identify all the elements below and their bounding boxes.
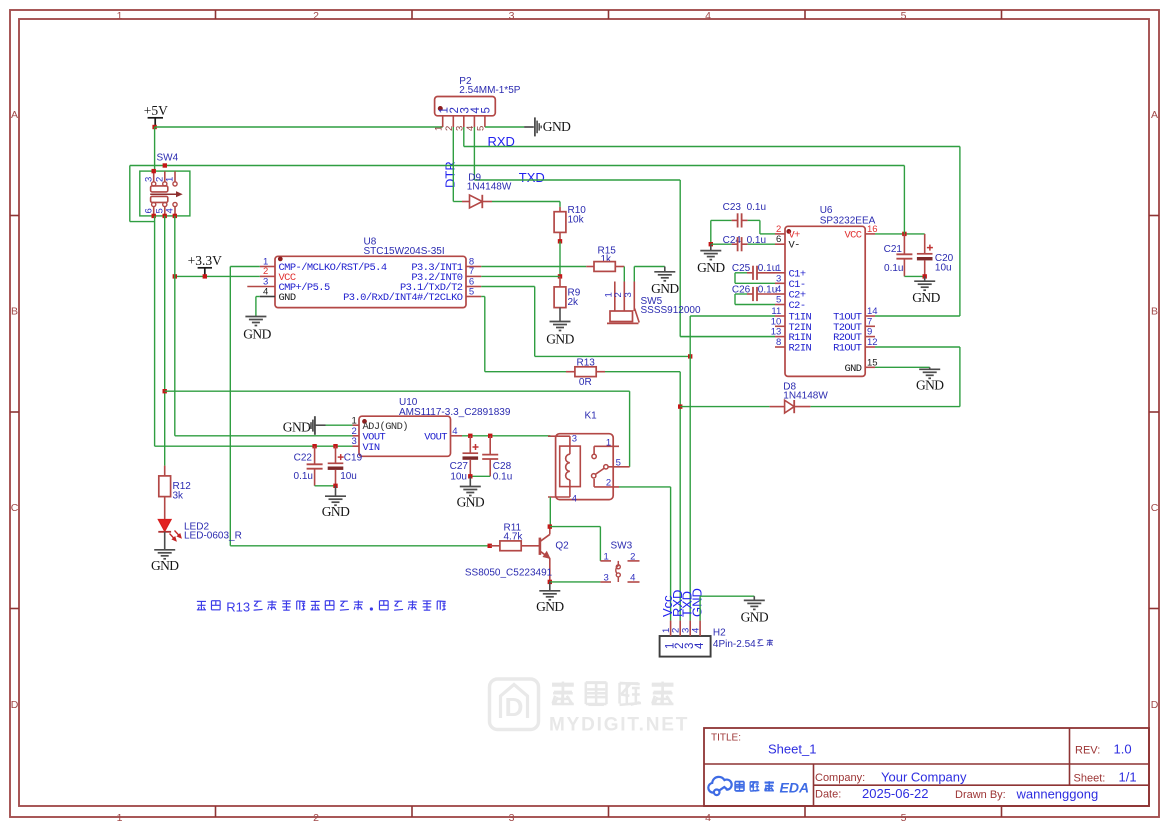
svg-text:3: 3	[623, 292, 634, 297]
title block logo text 嘉立创EDA	[734, 782, 736, 791]
svg-text:GND: GND	[322, 504, 350, 519]
ground below C27	[469, 476, 471, 486]
svg-text:GND: GND	[536, 599, 564, 614]
capacitor C27 (polarized)	[469, 436, 471, 453]
wire Q2 emitter to SW3 pin3	[550, 581, 601, 583]
U6 pin 7 T2OUT	[865, 325, 875, 327]
svg-text:5: 5	[901, 812, 907, 824]
U6 pin 14 T1OUT	[865, 315, 875, 317]
wire SW4 inner loop rectangle	[140, 171, 190, 216]
svg-text:3: 3	[604, 573, 609, 584]
svg-text:C2-: C2-	[789, 300, 806, 312]
svg-text:D: D	[11, 699, 19, 711]
wire SW4 pin5 down to R12/K1 net	[164, 216, 166, 466]
node C27 bottom junction	[468, 474, 472, 478]
svg-text:STC15W204S-35I: STC15W204S-35I	[364, 246, 445, 257]
wire R1IN from TXD net	[680, 336, 775, 338]
svg-text:1: 1	[606, 438, 611, 449]
svg-text:8: 8	[776, 337, 781, 348]
svg-text:C19: C19	[344, 453, 363, 464]
svg-text:SS8050_C5223491: SS8050_C5223491	[465, 568, 553, 579]
svg-text:GND: GND	[916, 378, 944, 393]
wire K1 pin2 to H2 pin1 Vcc	[619, 486, 671, 488]
switch SW4 body	[153, 171, 155, 181]
U10 pin 2 VOUT left	[353, 435, 360, 437]
header H2 4Pin	[660, 636, 711, 657]
svg-text:GND: GND	[912, 290, 940, 305]
U6 pin 11 T1IN	[775, 315, 785, 317]
U10 pin 1 ADJ(GND)	[353, 424, 360, 426]
U6 pin 3 C1-	[775, 282, 785, 284]
K1 pin 1 NC contact	[594, 445, 619, 447]
wire H2 pin4 to GND	[699, 596, 701, 620]
svg-text:4: 4	[452, 426, 457, 437]
svg-text:C23: C23	[723, 202, 742, 213]
annotation note about R13 (chinese)	[197, 600, 206, 602]
node R10 bottom junction	[558, 239, 562, 243]
svg-text:1: 1	[117, 812, 123, 824]
svg-text:GND: GND	[283, 419, 311, 434]
svg-text:4: 4	[694, 642, 706, 649]
svg-text:R2IN: R2IN	[789, 343, 812, 355]
ground at H2 pin4	[753, 596, 755, 600]
U6 pin 4 C2+	[775, 293, 785, 295]
K1 pin 2 NO contact	[593, 479, 595, 487]
ground at U6 pin15	[875, 366, 930, 368]
svg-text:3k: 3k	[173, 490, 185, 501]
node T1IN net junction	[688, 354, 692, 358]
title block table	[704, 728, 1149, 806]
svg-text:B: B	[1151, 306, 1158, 318]
svg-text:2025-06-22: 2025-06-22	[862, 786, 929, 801]
node SW4 pin connections	[163, 163, 167, 167]
svg-text:wannenggong: wannenggong	[1016, 787, 1099, 802]
U6 pin 5 C2-	[775, 304, 785, 306]
ground GND at P2 pin5 (right-pointing)	[485, 126, 524, 128]
svg-text:GND: GND	[741, 610, 769, 625]
watermark logo house-D	[490, 679, 539, 730]
svg-text:3: 3	[143, 177, 154, 182]
wire C25 to U6 C1-	[735, 272, 747, 274]
switch SW3 body	[600, 560, 611, 562]
wire U6 VCC to decoupling	[875, 233, 925, 235]
svg-text:3: 3	[776, 273, 781, 284]
svg-text:GND: GND	[844, 363, 861, 375]
wire C21 C20 commons	[904, 275, 924, 277]
svg-text:1: 1	[434, 126, 445, 131]
wire R10 to R9 divider	[559, 241, 561, 276]
K1 pin 3 coil+	[548, 435, 570, 437]
svg-text:4: 4	[690, 628, 701, 633]
K1 pin 4 coil-	[548, 496, 570, 498]
svg-text:TITLE:: TITLE:	[711, 733, 741, 744]
svg-text:U6: U6	[820, 205, 833, 216]
svg-text:AMS1117-3.3_C2891839: AMS1117-3.3_C2891839	[399, 407, 511, 418]
K1 coil	[569, 436, 571, 454]
regulator U10 AMS1117-3.3 box	[359, 416, 451, 456]
diode D9 1N4148W	[462, 201, 470, 203]
svg-text:K1: K1	[585, 411, 598, 422]
svg-text:2: 2	[630, 552, 635, 563]
svg-text:D: D	[1151, 699, 1159, 711]
svg-text:2: 2	[606, 478, 611, 489]
svg-text:0.1u: 0.1u	[884, 263, 903, 274]
U6 pin 15 GND	[865, 366, 875, 368]
svg-text:2k: 2k	[568, 297, 580, 308]
wire +5V down to SW4 pin3	[154, 127, 156, 171]
svg-text:C: C	[11, 502, 19, 514]
svg-text:GND: GND	[279, 292, 296, 304]
node C19 bottom junction	[333, 484, 337, 488]
wire U8 pin8 P3.3/INT1 to R15	[481, 266, 586, 268]
H2 pin stubs	[670, 621, 672, 636]
U8 pin 6 P3.1/TxD/T2	[466, 286, 481, 288]
node C22 C19 taps	[312, 444, 316, 448]
ground below R9	[559, 308, 561, 322]
wire U8 pin1 RST to Q2 drive	[230, 266, 259, 268]
ground below C23/C24	[710, 244, 712, 250]
U6 pin 2 V+	[775, 233, 785, 235]
ground below LED2	[164, 532, 166, 550]
svg-text:1.0: 1.0	[1114, 742, 1132, 757]
svg-text:Sheet:: Sheet:	[1074, 773, 1106, 785]
svg-text:A: A	[11, 109, 18, 121]
svg-text:1: 1	[604, 552, 609, 563]
wire R13 to RXD header net	[605, 371, 680, 373]
svg-text:Your Company: Your Company	[881, 770, 967, 785]
ground at U8 pin4	[256, 296, 260, 298]
svg-text:TXD: TXD	[519, 170, 545, 185]
wire SW4 pin4 down to +3.3V / U10 VOUT	[174, 216, 176, 436]
wire VCC net from SW4 down	[903, 166, 905, 234]
U6 pin 6 V-	[775, 243, 785, 245]
svg-text:C21: C21	[884, 244, 903, 255]
K1 pin 5 common	[604, 465, 608, 469]
svg-text:Company:: Company:	[815, 772, 865, 784]
wire VIN rail to U10 pin3	[155, 445, 353, 447]
svg-text:H2: H2	[713, 628, 726, 639]
node Q2 emitter junction	[548, 580, 552, 584]
ground below C20	[924, 276, 926, 281]
svg-text:4: 4	[263, 286, 268, 297]
svg-text:1N4148W: 1N4148W	[467, 182, 512, 193]
svg-text:1: 1	[165, 177, 176, 182]
relay K1 body	[556, 434, 614, 500]
wire C27 C28 commons	[470, 475, 490, 477]
IC U8 STC15W204S-35I box	[275, 256, 466, 307]
svg-text:GND: GND	[651, 281, 679, 296]
svg-text:SW3: SW3	[611, 541, 633, 552]
node +3.3V rail junctions	[173, 274, 177, 278]
svg-text:SSSS912000: SSSS912000	[641, 305, 701, 316]
LED LED2 (red)	[164, 497, 166, 520]
wire T1IN from header net	[690, 315, 775, 317]
node C23/C24 ground junction	[709, 242, 713, 246]
capacitor C28	[489, 436, 491, 455]
wire D9 cathode to R10	[492, 201, 560, 203]
ground below Q2 emitter	[549, 582, 551, 591]
U10 pin 4 VOUT right	[451, 435, 463, 437]
capacitor C20 (polarized)	[924, 234, 926, 254]
svg-text:Sheet_1: Sheet_1	[768, 742, 816, 757]
svg-text:0.1u: 0.1u	[493, 471, 512, 482]
svg-text:10u: 10u	[340, 471, 357, 482]
U6 pin 12 R1OUT	[865, 346, 875, 348]
svg-text:MYDIGIT.NET: MYDIGIT.NET	[549, 715, 689, 736]
title block JLC EDA logo cloud	[708, 777, 731, 795]
node Q2 collector junction	[548, 524, 552, 528]
svg-text:0R: 0R	[579, 377, 592, 388]
svg-text:5: 5	[616, 457, 621, 468]
svg-text:10u: 10u	[935, 262, 952, 273]
wire RXD from P2 pin3	[463, 127, 465, 147]
svg-text:C: C	[1151, 502, 1159, 514]
svg-text:V-: V-	[789, 240, 800, 252]
svg-text:4Pin-2.54: 4Pin-2.54	[713, 639, 756, 650]
svg-text:P3.0/RxD/INT4#/T2CLKO: P3.0/RxD/INT4#/T2CLKO	[343, 292, 463, 304]
wire U8 pin7 P3.2/INT0 to divider	[481, 275, 560, 277]
watermark text 数码之家	[552, 683, 574, 686]
P2 pin1 marker dot	[438, 107, 442, 111]
svg-text:1/1: 1/1	[1119, 770, 1137, 785]
wire K1 pin3 from VOUT	[549, 435, 551, 437]
svg-text:5: 5	[469, 286, 474, 297]
node C27 C28 taps	[468, 434, 472, 438]
svg-text:R1OUT: R1OUT	[833, 343, 862, 355]
svg-text:REV:: REV:	[1075, 745, 1100, 757]
wire +3.3V rail to U8 pin2	[175, 275, 260, 277]
U8 pin 7 P3.2/INT0	[466, 275, 481, 277]
frame row ticks left	[10, 215, 19, 217]
svg-text:4: 4	[705, 10, 711, 22]
svg-text:GND: GND	[543, 119, 571, 134]
resistor R10	[559, 207, 561, 212]
node divider junction to U8 pin7	[558, 274, 562, 278]
svg-text:2: 2	[352, 426, 357, 437]
U10 pin 3 VIN	[353, 445, 360, 447]
U6 pin 16 VCC	[865, 233, 875, 235]
svg-text:GND: GND	[457, 495, 485, 510]
svg-text:2.54MM-1*5P: 2.54MM-1*5P	[459, 85, 520, 96]
frame column ticks bottom	[215, 806, 217, 817]
svg-text:C22: C22	[294, 453, 313, 464]
wire MCU TxD to T1IN net	[481, 286, 535, 288]
wire C23 to U6 V+	[748, 219, 760, 221]
ground below C19	[335, 486, 337, 496]
svg-text:4: 4	[165, 208, 176, 213]
frame row ticks right	[1149, 215, 1159, 217]
svg-text:+3.3V: +3.3V	[188, 253, 222, 268]
svg-text:A: A	[1151, 109, 1158, 121]
svg-text:Drawn By:: Drawn By:	[955, 789, 1006, 801]
ground at SW5 pin3	[664, 267, 666, 272]
svg-text:2: 2	[313, 812, 319, 824]
svg-text:VIN: VIN	[363, 442, 380, 454]
svg-text:9: 9	[867, 327, 872, 338]
wire C22 C19 commons	[315, 485, 336, 487]
svg-text:5: 5	[776, 295, 781, 306]
svg-text:1k: 1k	[601, 254, 613, 265]
wire R1OUT to D8	[875, 346, 960, 348]
svg-text:5: 5	[901, 10, 907, 22]
diode D8 1N4148W	[680, 406, 769, 408]
svg-text:Q2: Q2	[555, 541, 569, 552]
wire TXD from P2 pin4	[473, 127, 475, 180]
U6 pin 10 T2IN	[775, 325, 785, 327]
U6 pin 8 R2IN	[775, 346, 785, 348]
svg-text:4: 4	[630, 573, 635, 584]
svg-text:LED-0603_R: LED-0603_R	[184, 531, 242, 542]
wire SW4 left loop	[129, 166, 131, 222]
U6 pin 1 C1+	[775, 272, 785, 274]
svg-text:3: 3	[572, 433, 577, 444]
svg-text:4: 4	[705, 812, 711, 824]
node VCC junction at C21	[902, 232, 906, 236]
node R11 input junction	[488, 544, 492, 548]
svg-text:6: 6	[143, 208, 154, 213]
wire +5V to P2 pin1	[155, 126, 443, 128]
capacitor C19 (polarized)	[335, 446, 337, 463]
svg-text:D: D	[505, 692, 524, 722]
resistor R9	[559, 276, 561, 287]
svg-text:3: 3	[352, 436, 357, 447]
wire Q2 collector to SW3 pin1	[550, 526, 601, 528]
svg-text:GND: GND	[697, 260, 725, 275]
P2 pin stubs	[442, 116, 444, 127]
svg-text:GND: GND	[546, 332, 574, 347]
frame column ticks top	[215, 10, 217, 19]
wire C24 to U6 V-	[748, 243, 775, 245]
svg-text:3: 3	[509, 812, 515, 824]
U6 pin 13 R1IN	[775, 336, 785, 338]
wire DTR from P2 pin2 down	[452, 127, 454, 202]
node +5V junction	[152, 125, 156, 129]
wire C26 to U6 C2-	[735, 293, 747, 295]
svg-text:B: B	[11, 306, 18, 318]
node D8 anode junction	[678, 404, 682, 408]
svg-text:4: 4	[572, 494, 577, 505]
svg-text:GND: GND	[243, 327, 271, 342]
U8 pin 4 GND	[260, 296, 275, 298]
U8 pin 5 P3.0/RxD/INT4#/T2CLKO	[466, 296, 481, 298]
connector P2	[435, 97, 496, 116]
svg-text:R13: R13	[226, 600, 250, 615]
U8 pin 8 P3.3/INT1	[466, 266, 481, 268]
svg-text:GND: GND	[690, 588, 705, 617]
wire SW5 pin3 to GND	[633, 267, 635, 282]
capacitor C22	[314, 446, 316, 464]
node C20 bottom junction	[923, 274, 927, 278]
svg-text:VOUT: VOUT	[424, 431, 447, 443]
wire T1OUT to RXD net	[875, 315, 960, 317]
svg-text:2: 2	[313, 10, 319, 22]
svg-text:1: 1	[117, 10, 123, 22]
wire K1 pin4 down to Q2 collector	[549, 497, 551, 527]
wire SW4 net to VCC rail (long horizontal)	[130, 165, 905, 167]
svg-text:VCC: VCC	[844, 229, 861, 241]
svg-text:10u: 10u	[450, 471, 467, 482]
wire U10 VOUT to K1 pin3	[462, 435, 550, 437]
svg-text:0.1u: 0.1u	[294, 471, 313, 482]
IC U6 SP3232EEA box	[785, 226, 865, 376]
svg-text:EDA: EDA	[780, 780, 810, 796]
wire SW4 pin6 down to U10 VIN	[154, 216, 156, 446]
wire MCU RxD to R13	[481, 296, 485, 298]
U8 pin 2 VCC	[260, 275, 275, 277]
svg-text:10k: 10k	[568, 215, 585, 226]
svg-text:Date:: Date:	[815, 789, 841, 801]
svg-text:GND: GND	[151, 558, 179, 573]
svg-text:0.1u: 0.1u	[747, 202, 766, 213]
wire RST net to R11	[230, 545, 489, 547]
wire T1IN vertical to H2 pin3 TXD	[689, 316, 691, 621]
svg-text:1N4148W: 1N4148W	[783, 390, 828, 401]
resistor R12	[164, 466, 166, 476]
svg-text:5: 5	[481, 107, 493, 113]
svg-text:3: 3	[509, 10, 515, 22]
U8 pin 1 CMP-/MCLKO/RST/P5.4	[260, 266, 275, 268]
node K1 coil branch	[163, 389, 167, 393]
wire R15 to SW5 pin2	[623, 267, 625, 282]
U6 pin 9 R2OUT	[865, 336, 875, 338]
U8 pin 3 CMP+/P5.5	[247, 286, 275, 288]
wire C23 left down to GND node	[710, 220, 712, 244]
svg-text:+5V: +5V	[144, 103, 168, 118]
K1 lever	[592, 474, 596, 478]
svg-text:SW4: SW4	[157, 153, 179, 164]
svg-text:6: 6	[776, 234, 781, 245]
wire LED net to K1 pin5 (long horizontal)	[165, 390, 630, 392]
transistor Q2 SS8050	[539, 538, 542, 555]
switch SW5 SSSS912000	[614, 282, 616, 312]
